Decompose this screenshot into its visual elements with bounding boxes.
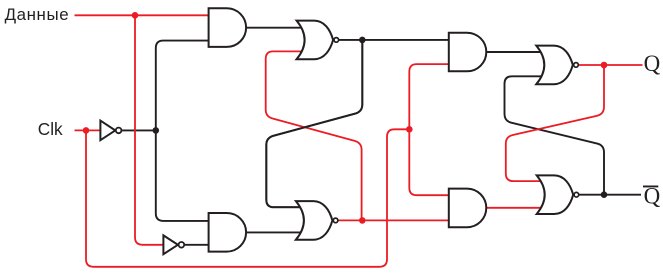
- svg-text:Данные: Данные: [5, 5, 70, 24]
- svg-text:Clk: Clk: [38, 119, 63, 139]
- svg-text:Q: Q: [644, 51, 661, 76]
